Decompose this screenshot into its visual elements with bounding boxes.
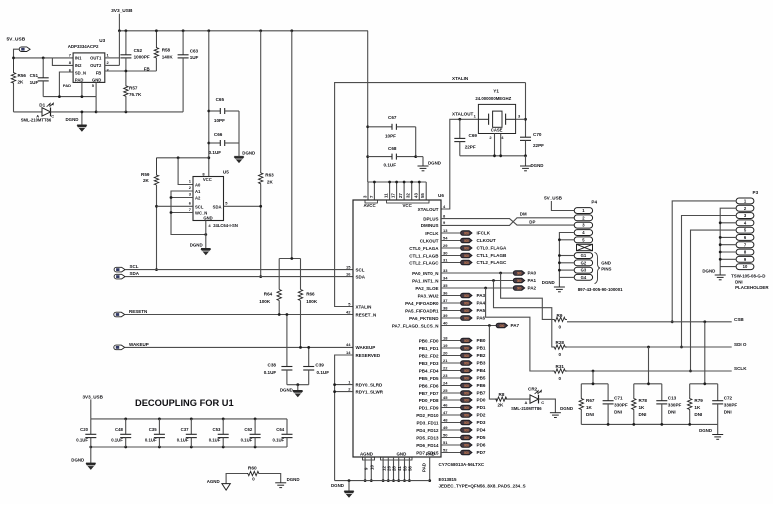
wire DPLUS to P4 DP (441, 219, 574, 226)
wire R67 C71 box (581, 371, 608, 424)
ground DGND at U5 (190, 221, 211, 255)
ground DGND at C65/C66 (234, 111, 255, 163)
svg-text:PB2: PB2 (477, 353, 486, 358)
part label E013815 (439, 477, 458, 482)
svg-text:PA4: PA4 (477, 301, 486, 306)
wire U3 OUT1/OUT2 to 3V3 (105, 31, 120, 66)
connector P4 usb (574, 200, 597, 281)
pin 44 WAKEUP (346, 342, 375, 350)
resistor R9 (553, 313, 568, 330)
ground DGND at C68 (414, 127, 441, 171)
node SDIO (567, 342, 747, 348)
svg-text:20: 20 (443, 350, 448, 355)
svg-text:PA1: PA1 (528, 278, 537, 283)
resistor R31 (553, 364, 568, 381)
pin 36 PA3_WU2 (418, 290, 486, 298)
op-amp U5 24LC64-I-SN eeprom (189, 169, 238, 228)
svg-text:IN2: IN2 (75, 63, 82, 68)
node PA7 (441, 323, 520, 328)
node XTALOUT (441, 112, 478, 210)
svg-text:CTL1_FLAGB: CTL1_FLAGB (409, 253, 439, 258)
svg-text:G4: G4 (581, 275, 587, 280)
svg-text:000: 000 (464, 384, 469, 388)
svg-text:CTL0_FLAGA: CTL0_FLAGA (477, 246, 508, 251)
svg-text:PD5: PD5 (477, 435, 486, 440)
svg-text:SDA: SDA (356, 274, 366, 279)
svg-text:21: 21 (443, 358, 448, 363)
crystal Y1 24.000000MEGHZ (474, 89, 521, 140)
svg-text:PD6_FD14: PD6_FD14 (416, 443, 439, 448)
svg-text:10: 10 (743, 264, 748, 269)
wire R78 C13 box (634, 347, 662, 424)
wire 3V3 to U5 VCC (207, 31, 210, 177)
pin 2 RDY1_SLWR (348, 386, 383, 394)
svg-text:0: 0 (559, 352, 562, 357)
svg-text:000: 000 (464, 246, 469, 250)
svg-text:000: 000 (464, 451, 469, 455)
svg-text:PA3_WU2: PA3_WU2 (418, 293, 439, 298)
svg-text:SD_N: SD_N (75, 71, 86, 76)
pin 24 PB6_FD6 (419, 380, 486, 388)
pin 42 RESET_N (346, 309, 376, 317)
svg-text:1K: 1K (694, 405, 701, 410)
svg-text:PB2_FD2: PB2_FD2 (419, 353, 439, 358)
capacitor C53 (209, 419, 229, 447)
svg-text:R59: R59 (141, 172, 150, 177)
svg-text:OUT1: OUT1 (90, 56, 102, 61)
node PA1 (441, 278, 537, 283)
svg-text:GND: GND (601, 261, 611, 266)
svg-text:0.1UF: 0.1UF (177, 438, 189, 443)
svg-text:000: 000 (464, 231, 469, 235)
svg-text:48: 48 (443, 417, 448, 422)
capacitor C67 (368, 115, 416, 139)
svg-text:100K: 100K (259, 299, 271, 304)
svg-text:SML-210MTT86: SML-210MTT86 (21, 118, 52, 123)
svg-text:40: 40 (443, 320, 448, 325)
ground DGND at P3 (702, 268, 725, 280)
node GND pins (381, 452, 413, 482)
wire PA0 to R9 (501, 273, 553, 319)
capacitor C68 (368, 146, 416, 168)
capacitor C48 (111, 419, 131, 447)
svg-text:G3: G3 (581, 268, 587, 273)
wire RC ground rail (607, 423, 691, 426)
svg-text:000: 000 (464, 316, 469, 320)
svg-text:C13: C13 (668, 396, 677, 401)
svg-text:SCL: SCL (356, 267, 365, 272)
pin 38 PA5_FIFOADR1 (405, 305, 485, 313)
svg-text:000: 000 (464, 369, 469, 373)
pin 31 CTL2_FLAGC (409, 257, 507, 265)
svg-text:PD1: PD1 (477, 405, 486, 410)
part label CY7C68013A-56LTXC (439, 462, 485, 467)
pin 39 PA6_PKTEND (409, 313, 485, 321)
op-amp U6 CY7C68013A chip body (353, 193, 444, 457)
capacitor C39 (303, 346, 329, 385)
capacitor C63 (178, 31, 199, 112)
svg-text:AGND: AGND (360, 452, 373, 457)
svg-text:A1: A1 (195, 189, 201, 194)
power flag 3V3_USB top (111, 8, 133, 31)
svg-text:54: 54 (443, 235, 448, 240)
svg-text:27: 27 (398, 193, 403, 198)
pin 35 PA2_SLOE (415, 283, 448, 291)
svg-text:2K: 2K (267, 179, 274, 184)
svg-text:1UF: 1UF (30, 80, 39, 85)
svg-text:PA6_PKTEND: PA6_PKTEND (409, 316, 439, 321)
node AGND pins (360, 452, 375, 482)
resistor R78 (632, 384, 648, 425)
svg-text:37: 37 (443, 298, 448, 303)
svg-text:23: 23 (443, 373, 448, 378)
wire 3V3 down to U6 (366, 31, 369, 182)
node RESETN flag (114, 309, 353, 317)
pin 9 DMINUS (421, 220, 446, 228)
wire U6 power rail (368, 181, 427, 200)
svg-text:VCC: VCC (203, 177, 212, 182)
wire IN1/IN2 jog (52, 58, 73, 66)
svg-text:PA2: PA2 (528, 286, 537, 291)
resistor R79 (688, 384, 704, 425)
pin 48 PD3_FD11 (416, 417, 485, 425)
capacitor C38 (264, 313, 293, 385)
svg-text:DNI: DNI (668, 410, 676, 415)
svg-text:JEDEC_TYPE=QFN56_8X8_PADS_234_: JEDEC_TYPE=QFN56_8X8_PADS_234_S (439, 484, 526, 489)
svg-text:DGND: DGND (560, 406, 573, 411)
svg-text:CTL2_FLAGC: CTL2_FLAGC (477, 260, 508, 265)
svg-text:PLACEHOLDER: PLACEHOLDER (735, 285, 769, 290)
svg-text:C70: C70 (533, 132, 542, 137)
svg-text:10: 10 (370, 465, 375, 470)
svg-text:RESETN: RESETN (129, 309, 147, 314)
svg-text:330PF: 330PF (614, 403, 628, 408)
svg-text:PA3: PA3 (477, 293, 486, 298)
svg-text:000: 000 (464, 346, 469, 350)
svg-text:RESERVED: RESERVED (356, 353, 381, 358)
svg-text:PA6: PA6 (477, 316, 486, 321)
wire U3 pad/gnd node (43, 82, 96, 112)
svg-text:DNI: DNI (639, 412, 647, 417)
part label JEDEC_TYPE (439, 484, 526, 489)
capacitor C62 (241, 419, 261, 447)
svg-text:C63: C63 (190, 49, 199, 54)
svg-text:1UF: 1UF (190, 55, 199, 60)
svg-text:IFCLK: IFCLK (425, 231, 439, 236)
svg-text:DGND: DGND (190, 242, 203, 247)
svg-text:000: 000 (464, 254, 469, 258)
svg-text:24.000000MEGHZ: 24.000000MEGHZ (475, 96, 511, 101)
part label 897-43-005-90-100001 (578, 287, 623, 292)
svg-text:C: C (541, 400, 544, 405)
svg-text:DGND: DGND (242, 150, 255, 155)
svg-text:0.1UF: 0.1UF (272, 438, 284, 443)
svg-text:PB5: PB5 (477, 376, 486, 381)
svg-text:15: 15 (346, 264, 351, 269)
svg-text:PB7: PB7 (477, 391, 486, 396)
svg-text:D1: D1 (39, 102, 45, 107)
svg-text:DNI: DNI (724, 410, 732, 415)
svg-text:47: 47 (443, 410, 448, 415)
node PA0 (441, 271, 537, 276)
svg-text:ADP3334ACP2: ADP3334ACP2 (68, 44, 99, 49)
title DECOUPLING FOR U1 (135, 398, 234, 408)
svg-text:0.1UF: 0.1UF (209, 150, 222, 155)
pin 51 PD6_FD14 (416, 440, 486, 448)
resistor R28 (553, 340, 568, 357)
svg-text:330PF: 330PF (724, 403, 738, 408)
svg-text:000: 000 (464, 309, 469, 313)
svg-text:DP: DP (529, 219, 535, 224)
svg-text:GND: GND (203, 215, 212, 220)
svg-text:R63: R63 (265, 173, 274, 178)
node SDA flag (114, 271, 353, 279)
resistor R8 (489, 326, 506, 408)
svg-text:DGND: DGND (280, 387, 293, 392)
svg-text:000: 000 (464, 421, 469, 425)
svg-text:A2: A2 (195, 196, 201, 201)
ground DGND at RC boxes (699, 424, 723, 439)
svg-text:10PF: 10PF (385, 134, 396, 139)
svg-text:C48: C48 (115, 427, 123, 432)
svg-text:C35: C35 (149, 427, 157, 432)
svg-text:DGND: DGND (702, 268, 715, 273)
svg-text:C38: C38 (268, 362, 277, 367)
svg-text:0.1UF: 0.1UF (264, 370, 277, 375)
svg-text:SCL: SCL (130, 264, 139, 269)
wire gnd line to C63 (96, 111, 183, 114)
svg-text:000: 000 (464, 294, 469, 298)
node SCLK (567, 366, 747, 372)
svg-text:C39: C39 (315, 362, 324, 367)
svg-text:000: 000 (464, 443, 469, 447)
svg-text:000: 000 (464, 339, 469, 343)
svg-text:PB3_FD3: PB3_FD3 (419, 361, 439, 366)
power flag 5V_USB at P4 (544, 196, 574, 211)
svg-text:PB3: PB3 (477, 361, 486, 366)
svg-text:000: 000 (464, 398, 469, 402)
ground DGND at C70 (520, 154, 543, 170)
svg-text:44: 44 (346, 342, 351, 347)
svg-text:39: 39 (443, 313, 448, 318)
svg-text:56: 56 (408, 466, 413, 471)
svg-text:PB5_FD5: PB5_FD5 (419, 376, 439, 381)
svg-text:000: 000 (464, 406, 469, 410)
svg-text:76.7K: 76.7K (129, 92, 142, 97)
resistor R59 (141, 158, 159, 185)
op-amp U3 ADP3334ACP2 regulator (63, 38, 110, 88)
pin 4 XTALOUT (418, 204, 446, 212)
svg-text:PD2: PD2 (477, 413, 486, 418)
svg-text:25: 25 (443, 388, 448, 393)
resistor R56 (11, 58, 26, 85)
svg-text:PA2_SLOE: PA2_SLOE (415, 286, 438, 291)
power flag 5V_USB (7, 36, 31, 58)
svg-text:SDA: SDA (130, 271, 140, 276)
svg-text:SDA: SDA (213, 204, 222, 209)
svg-text:C68: C68 (388, 146, 397, 151)
node PA2 (441, 286, 537, 291)
svg-text:PD0_FD8: PD0_FD8 (419, 398, 439, 403)
svg-text:PAD: PAD (63, 83, 71, 88)
svg-text:PD0: PD0 (477, 398, 486, 403)
svg-text:R64: R64 (264, 292, 273, 297)
svg-text:DNI: DNI (735, 279, 743, 284)
svg-text:R57: R57 (129, 86, 138, 91)
svg-text:PD3_FD11: PD3_FD11 (416, 420, 439, 425)
svg-text:DPLUS: DPLUS (423, 216, 438, 221)
svg-text:000: 000 (464, 436, 469, 440)
brace GND PINS (595, 253, 612, 284)
svg-text:3V3_USB: 3V3_USB (83, 394, 104, 399)
svg-text:DM: DM (520, 211, 527, 216)
resistor R66 (298, 259, 318, 349)
svg-text:C51: C51 (30, 73, 39, 78)
pin 29 CTL0_FLAGA (409, 243, 507, 251)
svg-text:000: 000 (464, 301, 469, 305)
svg-text:17: 17 (391, 193, 396, 198)
svg-text:SCL: SCL (195, 204, 204, 209)
wire PA2 to R31 (486, 288, 553, 371)
pin 30 CTL1_FLAGB (409, 250, 507, 258)
node VCC pins (384, 193, 429, 208)
svg-text:DNI: DNI (694, 412, 702, 417)
svg-text:IFCLK: IFCLK (477, 231, 491, 236)
wire R59 to SCL (155, 185, 158, 271)
svg-text:2K: 2K (498, 402, 505, 407)
svg-text:R9: R9 (557, 313, 563, 318)
svg-text:000: 000 (464, 361, 469, 365)
wire P4 gnd pins (558, 233, 574, 288)
node XTALIN (335, 76, 526, 307)
wire decoupling rails (89, 418, 287, 449)
svg-text:R67: R67 (586, 398, 595, 403)
svg-text:PB6_FD6: PB6_FD6 (419, 383, 439, 388)
svg-text:38: 38 (443, 305, 448, 310)
svg-text:PD5_FD13: PD5_FD13 (416, 435, 439, 440)
wire DMINUS to P4 DM (441, 211, 574, 225)
wire P3 gnd pins (719, 208, 736, 275)
svg-text:FB: FB (96, 71, 102, 76)
svg-text:49: 49 (443, 425, 448, 430)
svg-text:C67: C67 (388, 115, 397, 120)
svg-text:WAKEUP: WAKEUP (356, 345, 376, 350)
wire U5 SCL line (157, 205, 194, 207)
svg-text:PD4_FD12: PD4_FD12 (416, 428, 439, 433)
svg-text:PA5: PA5 (477, 308, 486, 313)
svg-text:0.1UF: 0.1UF (76, 438, 88, 443)
wire crystal pin3 (516, 118, 526, 120)
part label DNI placeholder (735, 279, 769, 290)
capacitor C71 (603, 384, 628, 425)
svg-text:31: 31 (443, 257, 448, 262)
pin 23 PB5_FD5 (419, 373, 486, 381)
pin 13 IFCLK (425, 228, 490, 236)
svg-text:DGND: DGND (699, 428, 712, 433)
svg-text:1000PF: 1000PF (134, 55, 150, 60)
pin 15 SCL (346, 264, 365, 272)
svg-text:C62: C62 (244, 427, 252, 432)
svg-text:XTALIN: XTALIN (356, 304, 372, 309)
svg-text:DGND: DGND (66, 117, 79, 122)
svg-text:SCLK: SCLK (734, 366, 747, 371)
pin 22 PB4_FD4 (419, 365, 486, 373)
svg-text:35: 35 (443, 283, 448, 288)
svg-text:DGND: DGND (331, 483, 344, 488)
svg-text:14: 14 (346, 350, 351, 355)
wire crystal gnd pins 2 4 (460, 134, 526, 158)
svg-text:RDY0_SLRD: RDY0_SLRD (356, 382, 384, 387)
ground DGND at P4 (542, 280, 565, 292)
svg-text:36: 36 (443, 290, 448, 295)
svg-text:GND: GND (92, 77, 101, 82)
wire U3 SD_N to gnd node (59, 72, 73, 97)
svg-text:42: 42 (346, 309, 351, 314)
svg-text:PA7_FLAGD_SLCS_N: PA7_FLAGD_SLCS_N (392, 323, 439, 328)
svg-text:1K: 1K (586, 405, 593, 410)
svg-text:R31: R31 (556, 364, 565, 369)
pin 19 PB1_FD1 (419, 343, 486, 351)
pin 20 PB2_FD2 (419, 350, 486, 358)
pin 5 XTALIN (348, 301, 371, 309)
ground DGND at D1 (66, 111, 87, 132)
pin 37 PA4_FIFOADR0 (405, 298, 485, 306)
svg-text:PB1_FD1: PB1_FD1 (419, 346, 439, 351)
svg-text:OUT2: OUT2 (90, 63, 102, 68)
svg-text:IN1: IN1 (75, 56, 82, 61)
connector P3 header (736, 190, 758, 270)
svg-text:TSW-105-08-G-D: TSW-105-08-G-D (731, 273, 765, 278)
resistor R57 (124, 71, 142, 112)
svg-text:R66: R66 (306, 292, 315, 297)
svg-text:0.1UF: 0.1UF (317, 370, 330, 375)
svg-text:DMINUS: DMINUS (421, 223, 439, 228)
ground DGND decoupling (71, 447, 95, 469)
diode D1 SML-210MTT86 (14, 84, 98, 123)
svg-text:CR2: CR2 (528, 386, 538, 391)
svg-text:G2: G2 (581, 260, 587, 265)
svg-text:C69: C69 (469, 133, 478, 138)
svg-text:PD4: PD4 (477, 428, 486, 433)
svg-text:CLKOUT: CLKOUT (420, 238, 439, 243)
svg-text:DGND: DGND (287, 477, 300, 482)
svg-text:3V3_USB: 3V3_USB (111, 8, 133, 14)
ground DGND at U6 (331, 481, 354, 498)
svg-text:PB0: PB0 (477, 338, 486, 343)
wire P3 pin3 to SDIO (680, 216, 736, 349)
svg-text:PA0_INT0_N: PA0_INT0_N (412, 271, 438, 276)
svg-text:C52: C52 (134, 48, 143, 53)
wire P3 pin1 to CSB (671, 201, 736, 323)
svg-text:SDI O: SDI O (734, 342, 747, 347)
pin 34 PA1_INT1_N (412, 275, 448, 283)
svg-text:DGND: DGND (428, 161, 441, 166)
svg-text:CSB: CSB (734, 317, 744, 322)
capacitor C20 (76, 419, 96, 447)
svg-text:PINS: PINS (601, 266, 611, 271)
svg-text:DNI: DNI (586, 412, 594, 417)
svg-text:P4: P4 (591, 200, 597, 205)
pin 25 PB7_FD7 (419, 388, 486, 396)
wire branch to R59 (157, 156, 209, 159)
svg-text:DGND: DGND (531, 163, 544, 168)
svg-text:PB4_FD4: PB4_FD4 (419, 368, 439, 373)
svg-text:PB7_FD7: PB7_FD7 (419, 391, 439, 396)
pin 8 DPLUS (423, 213, 446, 221)
wire R79 C72 box (690, 322, 718, 425)
svg-text:000: 000 (464, 376, 469, 380)
svg-text:PD7: PD7 (477, 450, 486, 455)
